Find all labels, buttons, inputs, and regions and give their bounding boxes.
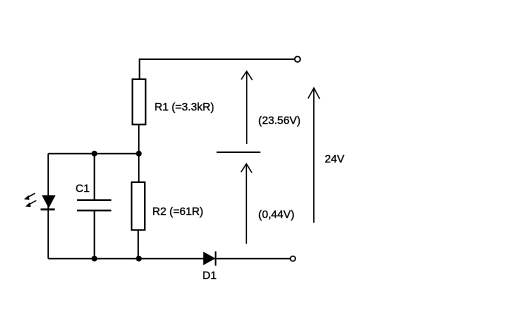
svg-text:(0,44V): (0,44V) [258, 209, 294, 221]
svg-text:C1: C1 [76, 183, 90, 195]
svg-text:(23.56V): (23.56V) [258, 115, 300, 127]
svg-text:R1 (=3.3kR): R1 (=3.3kR) [155, 102, 215, 114]
svg-text:D1: D1 [203, 270, 217, 282]
svg-text:24V: 24V [325, 154, 345, 166]
svg-text:R2 (=61R): R2 (=61R) [152, 206, 203, 218]
